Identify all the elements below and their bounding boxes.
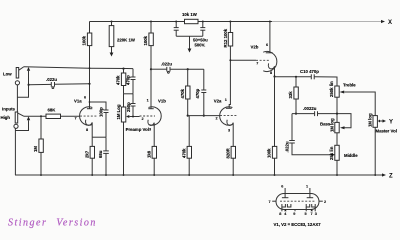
svg-text:2: 2 <box>216 116 218 120</box>
node X <box>381 20 385 23</box>
svg-text:3: 3 <box>315 212 317 216</box>
ground arrow filter caps <box>189 36 191 48</box>
tube diagram side grid leads pins 7 2 <box>272 200 276 202</box>
svg-text:100k: 100k <box>267 148 272 158</box>
svg-text:Treble: Treble <box>343 83 356 88</box>
resistor 10k 1W on rail <box>185 19 199 23</box>
capacitor C10 470p (treble) <box>275 76 312 78</box>
svg-text:4: 4 <box>284 212 287 216</box>
tube diagram V1/V2 envelope <box>276 194 319 210</box>
resistor 1k8 (V1b cathode) <box>152 146 156 158</box>
svg-text:7: 7 <box>75 116 77 120</box>
svg-text:470k: 470k <box>181 148 186 158</box>
capacitor 100p (plate snubber) <box>89 101 91 103</box>
svg-text:6: 6 <box>84 96 86 100</box>
svg-text:Z: Z <box>389 174 393 180</box>
svg-text:1: 1 <box>147 99 149 103</box>
svg-text:1: 1 <box>306 185 308 189</box>
svg-text:R12 100k: R12 100k <box>223 28 228 47</box>
svg-text:Preamp Vol: Preamp Vol <box>126 127 149 132</box>
wire tone stack mid node <box>295 113 297 115</box>
resistor 68K <box>46 114 61 118</box>
svg-text:7: 7 <box>256 62 258 66</box>
svg-text:8: 8 <box>270 71 272 75</box>
capacitor 250p (bright) <box>132 94 134 104</box>
resistor 1M <box>40 115 42 117</box>
svg-text:33k: 33k <box>288 91 293 99</box>
svg-text:470k: 470k <box>180 88 185 98</box>
wire V2a grid <box>187 115 189 117</box>
svg-text:68K: 68K <box>48 108 57 113</box>
resistor 33k (slope) <box>295 76 297 78</box>
svg-text:1: 1 <box>225 98 227 102</box>
svg-text:Stinger Version: Stinger Version <box>8 218 97 229</box>
capacitor 68u (V1a cathode bypass) <box>105 137 107 151</box>
svg-text:6: 6 <box>281 185 283 189</box>
svg-text:High: High <box>1 115 11 120</box>
capacitor 50+50u right <box>202 21 204 23</box>
tube V2b (cathode follower) <box>269 21 271 23</box>
svg-text:3: 3 <box>149 128 151 132</box>
svg-text:220K 1W: 220K 1W <box>117 38 136 43</box>
resistor R12 10k <box>229 21 231 23</box>
svg-text:7: 7 <box>269 200 271 204</box>
svg-text:68u: 68u <box>98 150 103 158</box>
svg-text:V1b: V1b <box>158 99 166 104</box>
svg-text:1M: 1M <box>33 146 38 152</box>
svg-text:100k: 100k <box>143 35 148 45</box>
svg-text:Middle: Middle <box>344 153 358 158</box>
svg-text:25k lin: 25k lin <box>329 146 334 160</box>
tube diagram cathode brackets <box>282 204 286 207</box>
svg-text:8: 8 <box>86 128 88 132</box>
wire filter cap bus <box>176 35 203 37</box>
svg-text:10k 1W: 10k 1W <box>182 12 198 17</box>
wire V2a plate line <box>229 46 230 108</box>
tube diagram plate leads <box>284 188 286 198</box>
svg-text:7: 7 <box>311 212 313 216</box>
svg-text:Master Vol: Master Vol <box>376 129 397 134</box>
svg-text:100p: 100p <box>98 107 103 117</box>
wire jack sleeve column <box>16 85 18 112</box>
svg-text:C10 470p: C10 470p <box>300 69 319 74</box>
svg-text:100k: 100k <box>82 35 87 45</box>
svg-text:Inputs: Inputs <box>2 107 15 112</box>
svg-text:9: 9 <box>293 212 295 216</box>
resistor 470k (V1a-V1b coupling) <box>122 68 124 70</box>
svg-text:V1, V2 = ECC83, 12AX7: V1, V2 = ECC83, 12AX7 <box>274 222 322 227</box>
tube diagram bottom pin leads <box>281 207 283 211</box>
wire coupling bottom bar <box>124 93 134 95</box>
svg-text:.022u: .022u <box>284 141 289 152</box>
wire V1a plate line <box>89 46 91 109</box>
resistor 470k (V2a grid leak) <box>188 116 190 147</box>
resistor 2k7 (V1a cathode) <box>92 136 106 138</box>
svg-text:V2b: V2b <box>251 45 259 50</box>
svg-text:6: 6 <box>266 43 268 47</box>
svg-text:2: 2 <box>324 200 326 204</box>
svg-text:470p: 470p <box>195 88 200 98</box>
capacitor .022u (mid) <box>291 114 293 141</box>
svg-text:8: 8 <box>279 212 281 216</box>
resistor 470k (V2a grid) <box>187 68 189 70</box>
svg-text:1k8: 1k8 <box>146 150 151 158</box>
capacitor .022u (low input) <box>28 84 30 86</box>
svg-text:V1a: V1a <box>74 99 82 104</box>
potentiometer Treble 250k lin <box>335 86 339 97</box>
jack switch contact arrow (high) <box>27 116 30 120</box>
svg-text:Y: Y <box>389 120 393 126</box>
resistor 820R (V2a cathode) <box>231 146 235 158</box>
potentiometer Bass 1M log <box>335 122 339 132</box>
svg-text:470k: 470k <box>116 75 121 85</box>
jack switch contact arrow (low) <box>27 67 30 71</box>
wire V1b plate line <box>150 46 152 109</box>
svg-text:V2a: V2a <box>214 98 222 103</box>
svg-text:1M log: 1M log <box>367 113 372 127</box>
svg-text:5: 5 <box>305 212 307 216</box>
svg-text:Low: Low <box>3 72 12 77</box>
potentiometer Middle 25k lin <box>335 145 339 160</box>
svg-text:2k7: 2k7 <box>84 150 89 158</box>
resistor 100k (V2b cathode) <box>274 77 276 147</box>
ground rail <box>15 174 382 176</box>
svg-text:1M Log: 1M Log <box>116 104 121 119</box>
wire low input line <box>24 67 133 69</box>
ground arrow below 220K <box>111 47 113 53</box>
svg-text:1M log: 1M log <box>329 118 334 132</box>
wire high input to grid <box>24 115 46 117</box>
resistor 220K 1W <box>111 21 113 23</box>
capacitor .022u (V1b-V2a coupling) <box>150 68 152 70</box>
svg-text:.0022u: .0022u <box>303 106 317 111</box>
svg-text:.022u: .022u <box>46 77 57 82</box>
svg-text:250k lin: 250k lin <box>329 81 334 97</box>
capacitor 470p (V2a grid) <box>203 69 205 90</box>
resistor R 100k (V1a plate) <box>89 22 91 34</box>
svg-text:3: 3 <box>228 129 230 133</box>
svg-text:470p: 470p <box>126 75 131 85</box>
svg-text:X: X <box>388 20 392 26</box>
node V2b cathode <box>273 75 275 77</box>
wire B+ rail <box>90 21 273 23</box>
potentiometer Preamp Vol 1M Log <box>123 94 125 107</box>
capacitor 50+50u left <box>175 21 177 23</box>
svg-text:2: 2 <box>142 117 144 121</box>
svg-text:.022u: .022u <box>161 62 172 67</box>
wire V2b grid feed <box>229 59 231 61</box>
potentiometer Master Vol 1M log <box>373 116 377 128</box>
svg-text:820R: 820R <box>225 147 230 158</box>
svg-text:500V.: 500V. <box>195 43 206 48</box>
resistor R 100k (V1b plate) <box>150 21 152 23</box>
capacitor 470p (V1a-V1b coupling) <box>132 69 134 77</box>
svg-text:250p: 250p <box>126 102 131 112</box>
